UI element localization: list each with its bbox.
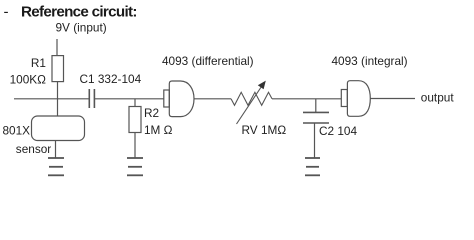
ground under C2 bbox=[305, 158, 320, 175]
svg-text:C2 104: C2 104 bbox=[319, 124, 357, 138]
ground under R2 bbox=[127, 158, 143, 175]
nand gate U2 body bbox=[347, 81, 370, 117]
capacitor C2 bbox=[303, 111, 329, 113]
wire main input segment bbox=[14, 98, 89, 100]
svg-text:801X: 801X bbox=[3, 123, 31, 137]
svg-text:Reference circuit:: Reference circuit: bbox=[21, 4, 137, 21]
wire gate2 to output bbox=[370, 98, 415, 100]
wire C1 to gate1 bbox=[95, 98, 164, 100]
svg-text:-: - bbox=[4, 4, 9, 21]
nand gate U1 4093 (differential): input pin box bbox=[164, 90, 170, 107]
sensor 801X bbox=[32, 116, 85, 141]
ground under sensor bbox=[48, 158, 64, 175]
wire C2 to ground bbox=[314, 123, 316, 157]
svg-text:output: output bbox=[421, 91, 455, 105]
wire RV to gate2 bbox=[272, 98, 341, 100]
svg-text:9V (input): 9V (input) bbox=[56, 21, 107, 35]
svg-text:R1: R1 bbox=[31, 56, 46, 70]
wire node C to C2 bbox=[315, 99, 317, 113]
nand gate U2 4093 (integral): input pin box bbox=[341, 90, 347, 107]
svg-text:4093 (differential): 4093 (differential) bbox=[162, 54, 254, 68]
svg-text:C1 332-104: C1 332-104 bbox=[80, 72, 142, 86]
potentiometer RV arrow bbox=[237, 87, 262, 125]
svg-text:sensor: sensor bbox=[16, 142, 51, 156]
svg-text:R2: R2 bbox=[144, 106, 159, 120]
potentiometer RV arrowhead bbox=[258, 81, 266, 90]
resistor R2 bbox=[129, 107, 141, 133]
capacitor C1 bbox=[88, 89, 90, 108]
wire 9V to R1 bbox=[56, 39, 58, 56]
svg-text:1M Ω: 1M Ω bbox=[144, 123, 173, 137]
wire node B to R2 bbox=[134, 99, 136, 107]
wire node A to sensor bbox=[57, 99, 59, 116]
potentiometer RV zigzag bbox=[231, 92, 272, 105]
nand gate U1 body bbox=[169, 81, 194, 117]
svg-text:4093 (integral): 4093 (integral) bbox=[332, 54, 408, 68]
wire R2 to ground bbox=[134, 133, 136, 158]
svg-text:RV 1MΩ: RV 1MΩ bbox=[242, 123, 287, 137]
wire sensor to ground bbox=[55, 141, 57, 158]
resistor R1 bbox=[52, 56, 64, 82]
svg-text:100KΩ: 100KΩ bbox=[10, 73, 47, 87]
wire R1 to node A bbox=[57, 82, 59, 100]
wire gate1 to RV bbox=[194, 98, 231, 100]
